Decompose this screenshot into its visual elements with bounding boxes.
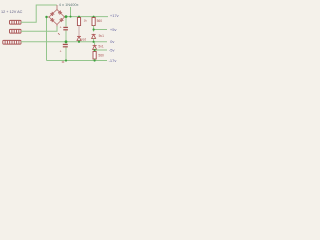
resistor R1 xyxy=(77,18,80,26)
connector X3 (12V AC bottom) xyxy=(3,40,21,44)
pin stub W xyxy=(47,16,50,18)
capacitor C1 pins xyxy=(65,18,67,27)
wire R3 to negative rail xyxy=(94,59,96,61)
connector X2 (center tap) xyxy=(10,29,22,33)
wire: negative rail xyxy=(47,60,108,62)
wire: DC minus vertical drop xyxy=(46,17,48,61)
wire: X1 to bridge AC1 (top corner) xyxy=(21,5,57,22)
capacitor C1 xyxy=(63,27,68,28)
svg-text:0v: 0v xyxy=(110,39,114,44)
wire: positive rail xyxy=(65,16,109,18)
junction dot R3 on negative rail xyxy=(94,59,96,61)
junction dot W pin xyxy=(45,16,47,18)
wire: X2 to bridge AC2 (bottom corner) xyxy=(21,26,57,31)
connector X1 (12V AC top) xyxy=(10,20,22,24)
wire LED1 to 0V xyxy=(78,40,80,41)
wire: stub above positive rail xyxy=(70,7,72,17)
pin stub S xyxy=(56,25,58,27)
diode D1 (W-N edge) xyxy=(49,10,57,18)
svg-text:red: red xyxy=(81,38,86,42)
svg-text:5v1: 5v1 xyxy=(98,45,103,49)
svg-text:4 x 1N400x: 4 x 1N400x xyxy=(59,2,79,7)
diode D3 (W-S edge) xyxy=(49,17,57,25)
svg-text:-5v: -5v xyxy=(109,48,115,53)
svg-text:+: + xyxy=(60,25,62,29)
wire tap +5v xyxy=(94,29,107,31)
tiny red tilde mark near bridge S pin xyxy=(58,34,60,35)
junction dot C2 bottom on negative rail xyxy=(65,59,67,61)
junction dot tap -5v xyxy=(94,49,96,51)
junction dot D5 on 0V xyxy=(93,41,95,43)
pin stub N xyxy=(56,5,58,10)
resistor R2 xyxy=(92,18,95,26)
svg-text:5v1: 5v1 xyxy=(99,34,104,38)
capacitor C2 pins xyxy=(65,42,67,44)
junction dot rail R1 xyxy=(78,16,80,18)
svg-text:1k: 1k xyxy=(84,19,88,23)
resistor R3 xyxy=(93,52,96,60)
diode D2 (N-E edge) xyxy=(57,10,65,18)
background xyxy=(0,0,120,72)
wire R2 to zener D5 xyxy=(93,26,95,32)
junction dot rail x70.5 xyxy=(70,16,72,18)
wire: 0V rail from X3 xyxy=(21,41,107,43)
diode D4 (S-E edge) xyxy=(57,17,65,25)
svg-text:+17v: +17v xyxy=(110,13,119,18)
pin stub E xyxy=(65,16,67,18)
LED1 xyxy=(77,36,81,40)
junction dot C1 bottom on 0V rail xyxy=(65,40,68,43)
tiny red mark near C2 xyxy=(62,61,64,63)
zener D5 xyxy=(92,34,96,38)
svg-text:560: 560 xyxy=(97,19,103,23)
junction dot LED1 on 0V xyxy=(78,41,80,43)
svg-text:+5v: +5v xyxy=(110,27,117,32)
wire R1 to LED1 xyxy=(78,26,80,37)
junction dot tap +5v xyxy=(93,28,95,30)
svg-text:+: + xyxy=(60,50,62,54)
capacitor C2 xyxy=(63,44,68,45)
svg-text:560: 560 xyxy=(98,53,104,57)
svg-text:12 + 12V AC: 12 + 12V AC xyxy=(1,10,23,14)
wire tap -5v xyxy=(94,49,96,51)
zener D6 xyxy=(94,42,96,46)
junction dot rail R2 xyxy=(93,16,95,18)
svg-text:-17v: -17v xyxy=(109,58,117,63)
junction dot E pin xyxy=(65,15,68,18)
bridge rectifier B1 (4 x 1N400x) xyxy=(47,5,67,26)
wire D5 to 0V xyxy=(93,38,95,41)
